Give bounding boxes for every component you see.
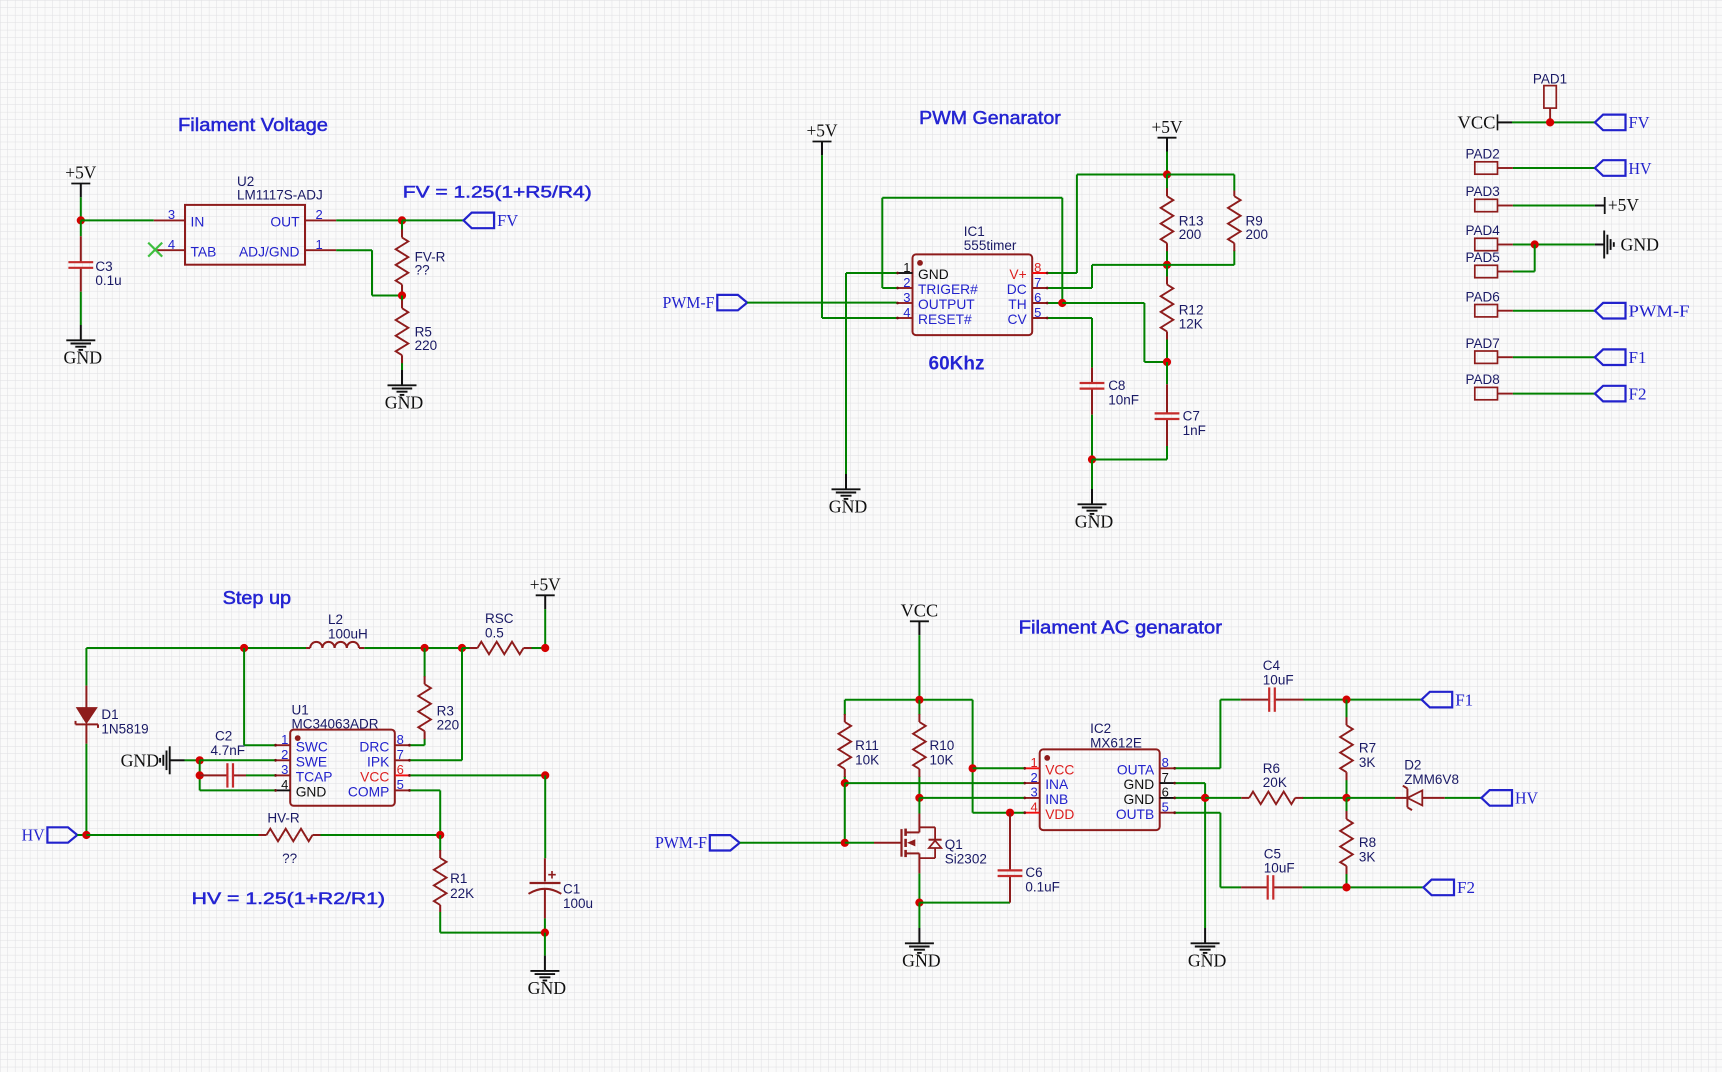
svg-text:INB: INB <box>1045 792 1068 807</box>
text title PWM Genarator <box>919 108 1061 128</box>
label IC2 <box>1090 721 1142 750</box>
label C6 value <box>1025 865 1060 894</box>
capacitor C7 <box>1155 384 1180 446</box>
svg-text:Filament AC genarator: Filament AC genarator <box>1019 618 1222 638</box>
label RSC value <box>485 611 514 640</box>
ground GND (Q1) <box>902 928 941 970</box>
wire <box>1048 175 1167 274</box>
wire <box>1513 244 1595 246</box>
svg-text:HV: HV <box>22 825 46 844</box>
wire <box>973 767 1024 769</box>
wire <box>1205 797 1241 799</box>
wire <box>1176 797 1205 799</box>
label D1 value <box>101 707 148 736</box>
label U1 <box>292 703 379 732</box>
wire <box>200 789 275 791</box>
pin 4 VDD <box>1023 800 1074 822</box>
svg-text:8: 8 <box>1034 260 1041 275</box>
junction GND/C2 <box>196 771 204 779</box>
wire <box>200 760 275 790</box>
label Q1 value <box>945 837 987 866</box>
svg-text:R8: R8 <box>1359 835 1376 850</box>
svg-text:6: 6 <box>1162 785 1169 800</box>
label R7 value <box>1359 741 1376 770</box>
svg-text:4.7nF: 4.7nF <box>211 743 246 758</box>
svg-text:10uF: 10uF <box>1264 861 1295 876</box>
svg-text:3K: 3K <box>1359 849 1376 864</box>
pin 2 OUT <box>270 207 336 229</box>
transistor Q1 Si2302 <box>874 814 942 874</box>
svg-text:PWM Genarator: PWM Genarator <box>919 108 1061 128</box>
svg-text:GND: GND <box>829 496 868 516</box>
svg-text:MX612E: MX612E <box>1090 735 1142 750</box>
svg-text:5: 5 <box>397 777 404 792</box>
capacitor C3 <box>68 236 93 292</box>
label C4 value <box>1263 658 1294 687</box>
wire <box>1176 813 1221 888</box>
wire <box>544 775 546 858</box>
svg-text:100uH: 100uH <box>328 626 368 641</box>
svg-text:??: ?? <box>282 851 297 866</box>
power flag VCC (ac gen) <box>901 601 939 636</box>
svg-text:Q1: Q1 <box>945 837 963 852</box>
wire <box>1048 318 1092 368</box>
svg-text:1: 1 <box>903 260 910 275</box>
label PAD5 <box>1466 250 1500 265</box>
label PAD3 <box>1466 184 1500 199</box>
label C2 value <box>211 728 246 757</box>
wire <box>1513 393 1595 395</box>
resistor R6 <box>1241 792 1314 805</box>
wire <box>80 292 82 325</box>
svg-text:GND: GND <box>918 267 949 282</box>
pin 8 V+ <box>1009 260 1048 282</box>
wire <box>1167 175 1234 191</box>
wire <box>1176 700 1221 769</box>
wire <box>1513 167 1595 169</box>
pin 7 GND <box>1124 770 1177 792</box>
svg-text:2: 2 <box>281 747 288 762</box>
no-connect flag pin 4 <box>148 243 162 257</box>
pin 5 COMP <box>348 777 411 799</box>
power flag +5V (filament input) <box>65 163 96 198</box>
wire <box>747 302 896 304</box>
svg-text:2: 2 <box>1030 770 1037 785</box>
svg-text:TRIGER#: TRIGER# <box>918 282 978 297</box>
svg-text:3K: 3K <box>1359 755 1376 770</box>
junction VCC/+5V rail <box>541 771 549 779</box>
svg-text:200: 200 <box>1246 227 1269 242</box>
diode D2 ZMM6V8 zener <box>1395 786 1445 810</box>
capacitor C1 polarized <box>529 858 562 918</box>
svg-text:D1: D1 <box>101 707 118 722</box>
svg-text:F1: F1 <box>1629 348 1647 367</box>
junction HV/D1 <box>82 831 90 839</box>
port FV (pad) <box>1595 113 1650 132</box>
svg-text:FV = 1.25(1+R5/R4): FV = 1.25(1+R5/R4) <box>403 183 592 202</box>
pin 1 GND <box>896 260 949 282</box>
svg-text:0.1u: 0.1u <box>95 273 121 288</box>
wire F1 line <box>1220 699 1240 701</box>
port HV (pad) <box>1595 159 1652 178</box>
svg-text:C3: C3 <box>95 259 112 274</box>
resistor R13 <box>1161 175 1174 265</box>
component U2 LM1117S-ADJ <box>185 205 305 265</box>
ground GND (step up) <box>528 956 567 998</box>
svg-text:MC34063ADR: MC34063ADR <box>292 717 379 732</box>
svg-text:R10: R10 <box>930 738 955 753</box>
svg-text:4: 4 <box>281 777 288 792</box>
wire <box>822 155 897 318</box>
svg-text:VCC: VCC <box>1045 762 1074 777</box>
wire <box>544 933 546 956</box>
label L2 value <box>328 612 368 641</box>
wire <box>1091 415 1093 460</box>
label PAD7 <box>1466 336 1500 351</box>
port F2 (ac gen) <box>1423 878 1475 897</box>
wire F2 line <box>1220 886 1241 888</box>
junction R6/R7/R8/D2 <box>1342 794 1350 802</box>
wire <box>1314 797 1347 799</box>
resistor R12 <box>1161 265 1174 362</box>
label R13 value <box>1179 213 1204 242</box>
svg-text:GND: GND <box>1124 792 1155 807</box>
wire <box>411 744 425 746</box>
label R9 value <box>1246 213 1269 242</box>
svg-text:C6: C6 <box>1025 865 1042 880</box>
junction FV-R/R5/ADJ <box>398 291 406 299</box>
svg-text:TAB: TAB <box>191 244 217 259</box>
svg-text:F2: F2 <box>1457 878 1475 897</box>
pin 8 OUTA <box>1117 755 1176 777</box>
svg-text:555timer: 555timer <box>964 238 1017 253</box>
port HV (step up) <box>22 825 78 844</box>
svg-text:HV: HV <box>1629 159 1653 178</box>
wire <box>846 273 897 474</box>
pad PAD2 <box>1475 162 1513 174</box>
wire <box>1166 362 1168 384</box>
resistor FV-R <box>396 220 409 295</box>
svg-text:IC1: IC1 <box>964 224 985 239</box>
svg-text:Si2302: Si2302 <box>945 851 987 866</box>
svg-text:R7: R7 <box>1359 741 1376 756</box>
wire <box>244 648 274 745</box>
wire <box>919 797 1023 799</box>
junction rail/SWC <box>240 644 248 652</box>
junction VDD/C6 <box>1006 809 1014 817</box>
svg-text:22K: 22K <box>450 886 474 901</box>
svg-text:CV: CV <box>1008 312 1028 327</box>
junction PWM-F/gate <box>841 839 849 847</box>
svg-text:+: + <box>548 867 557 884</box>
power flag +5V (pad3) <box>1595 195 1639 215</box>
pad PAD4 <box>1475 238 1513 250</box>
label C5 value <box>1264 846 1295 875</box>
svg-text:C8: C8 <box>1108 378 1125 393</box>
svg-text:0.1uF: 0.1uF <box>1025 879 1060 894</box>
wire <box>882 198 1062 303</box>
svg-text:VDD: VDD <box>1045 807 1074 822</box>
wire <box>973 812 1024 814</box>
pin 4 GND <box>274 777 326 799</box>
pin 8 DRC <box>359 732 411 754</box>
text 60Khz <box>929 354 985 375</box>
svg-text:0.5: 0.5 <box>485 625 504 640</box>
junction R12/C7 <box>1163 358 1171 366</box>
label R8 value <box>1359 835 1376 864</box>
svg-text:OUTPUT: OUTPUT <box>918 297 975 312</box>
svg-text:GND: GND <box>902 950 941 970</box>
ground GND (R5) <box>385 370 424 412</box>
diode D1 1N5819 <box>76 686 99 744</box>
wire <box>1166 446 1168 460</box>
svg-text:ZMM6V8: ZMM6V8 <box>1404 772 1459 787</box>
pin 1 ADJ/GND <box>239 237 336 259</box>
label IC1 <box>964 224 1017 253</box>
svg-text:PWM-F: PWM-F <box>655 833 707 852</box>
svg-text:GND: GND <box>385 392 424 412</box>
pad PAD8 <box>1475 387 1513 399</box>
junction HV-R/COMP/R1 <box>436 831 444 839</box>
capacitor C2 <box>200 763 275 787</box>
svg-text:3: 3 <box>168 207 175 222</box>
wire <box>440 912 545 933</box>
svg-text:C2: C2 <box>215 728 232 743</box>
svg-text:1: 1 <box>1030 755 1037 770</box>
wire <box>321 834 440 836</box>
wire <box>411 774 546 776</box>
label HV-R value <box>267 811 300 867</box>
wire <box>1304 699 1422 701</box>
wire <box>1092 460 1167 490</box>
svg-text:3: 3 <box>1030 785 1037 800</box>
svg-text:HV: HV <box>1515 789 1539 808</box>
resistor R5 <box>396 296 409 369</box>
svg-text:7: 7 <box>397 747 404 762</box>
wire <box>185 759 200 761</box>
wire <box>1445 797 1482 799</box>
svg-text:FV: FV <box>497 211 519 230</box>
junction PAD4/PAD5 <box>1531 240 1539 248</box>
junction INB/R10/Q1 drain <box>915 794 923 802</box>
resistor R7 <box>1340 700 1353 798</box>
svg-text:1: 1 <box>315 237 322 252</box>
wire <box>845 842 874 844</box>
wire <box>1048 302 1062 304</box>
svg-text:COMP: COMP <box>348 785 389 800</box>
svg-text:4: 4 <box>1030 800 1037 815</box>
pin 5 OUTB <box>1116 800 1176 822</box>
svg-text:R6: R6 <box>1263 761 1280 776</box>
svg-text:VCC: VCC <box>901 601 939 621</box>
resistor R9 <box>1228 191 1241 265</box>
svg-text:FV: FV <box>1629 113 1651 132</box>
text title Filament AC genarator <box>1019 618 1222 638</box>
label PAD4 <box>1466 223 1501 238</box>
junction C5/R8/F2 <box>1342 883 1350 891</box>
junction rail/R3 <box>421 644 429 652</box>
svg-text:TCAP: TCAP <box>296 770 333 785</box>
svg-text:7: 7 <box>1162 770 1169 785</box>
wire <box>411 648 463 760</box>
pin 3 TCAP <box>274 762 332 784</box>
svg-text:HV-R: HV-R <box>267 811 300 826</box>
port PWM-F (pad) <box>1595 302 1690 321</box>
pad PAD3 <box>1475 199 1513 211</box>
pin 6 VCC <box>360 762 411 784</box>
pin 4 RESET# <box>896 305 972 327</box>
pin 6 GND <box>1124 785 1177 807</box>
wire <box>1166 152 1168 175</box>
svg-text:DC: DC <box>1007 282 1027 297</box>
svg-text:D2: D2 <box>1404 758 1421 773</box>
label PAD6 <box>1466 289 1500 304</box>
pin 7 DC <box>1007 275 1049 297</box>
svg-text:R11: R11 <box>855 738 879 753</box>
pin 2 SWE <box>274 747 327 769</box>
svg-text:6: 6 <box>1034 290 1041 305</box>
label FV-R value <box>415 249 446 277</box>
junction +5V/C3/U2-IN <box>77 216 85 224</box>
IC1 body <box>913 254 1033 335</box>
svg-text:7: 7 <box>1034 275 1041 290</box>
label PAD1 <box>1533 71 1567 86</box>
svg-text:RSC: RSC <box>485 611 514 626</box>
svg-text:GND: GND <box>121 751 160 771</box>
svg-text:R1: R1 <box>450 871 467 886</box>
label U2 <box>237 174 323 203</box>
svg-text:VCC: VCC <box>1458 112 1496 132</box>
port F2 (pad) <box>1595 384 1647 403</box>
svg-text:GND: GND <box>1621 235 1660 255</box>
wire <box>336 219 402 221</box>
label C1 value <box>563 882 593 911</box>
svg-text:GND: GND <box>528 978 567 998</box>
svg-text:4: 4 <box>903 305 910 320</box>
ground GND (555) <box>829 474 868 516</box>
label R5 value <box>415 324 438 353</box>
svg-text:??: ?? <box>415 262 430 277</box>
wire <box>1062 303 1167 362</box>
svg-text:10uF: 10uF <box>1263 672 1294 687</box>
wire <box>918 635 920 700</box>
svg-text:6: 6 <box>397 762 404 777</box>
label C3 value <box>95 259 121 288</box>
junction C8/C7/GND <box>1088 455 1096 463</box>
capacitor C4 <box>1241 687 1304 711</box>
svg-text:2: 2 <box>315 207 322 222</box>
port F1 (ac gen) <box>1422 690 1474 709</box>
svg-text:220: 220 <box>437 718 460 733</box>
svg-text:SWE: SWE <box>296 754 327 769</box>
wire <box>1347 797 1396 799</box>
wire <box>740 842 845 844</box>
svg-text:10K: 10K <box>855 752 879 767</box>
wire <box>336 250 402 295</box>
svg-text:PAD7: PAD7 <box>1466 336 1500 351</box>
svg-text:OUTB: OUTB <box>1116 807 1154 822</box>
resistor RSC <box>462 642 545 655</box>
svg-text:2: 2 <box>903 275 910 290</box>
label R6 value <box>1263 761 1287 790</box>
svg-text:3: 3 <box>281 762 288 777</box>
svg-text:HV = 1.25(1+R2/R1): HV = 1.25(1+R2/R1) <box>192 889 385 908</box>
ground flag GND (step up) <box>121 746 185 774</box>
svg-text:3: 3 <box>903 290 910 305</box>
svg-text:LM1117S-ADJ: LM1117S-ADJ <box>237 188 323 203</box>
capacitor C8 <box>1080 368 1105 415</box>
port PWM-F (pwm out) <box>663 293 748 312</box>
wire <box>1302 886 1423 888</box>
wire <box>544 609 546 648</box>
svg-text:8: 8 <box>1162 755 1169 770</box>
junction R13/R12/DC <box>1163 261 1171 269</box>
wire <box>919 902 1010 904</box>
svg-text:TH: TH <box>1008 297 1026 312</box>
junction TH node <box>1058 299 1066 307</box>
pin 6 TH <box>1008 290 1048 312</box>
IC2 body <box>1040 749 1160 830</box>
svg-text:GND: GND <box>1075 511 1114 531</box>
wire <box>1176 783 1205 928</box>
svg-text:PAD1: PAD1 <box>1533 71 1567 86</box>
pad PAD5 <box>1475 265 1513 277</box>
resistor HV-R <box>258 829 321 842</box>
wire <box>1048 265 1234 288</box>
svg-text:R3: R3 <box>437 704 454 719</box>
wire <box>1513 310 1595 312</box>
wire <box>918 903 920 928</box>
resistor R1 <box>434 835 447 912</box>
pin 7 IPK <box>367 747 411 769</box>
svg-text:+5V: +5V <box>807 121 838 141</box>
svg-text:PAD6: PAD6 <box>1466 289 1500 304</box>
pad PAD1 <box>1544 86 1556 123</box>
svg-text:C5: C5 <box>1264 846 1281 861</box>
svg-text:+5V: +5V <box>1152 117 1183 137</box>
svg-text:IN: IN <box>191 215 205 230</box>
wire <box>77 834 86 836</box>
svg-text:4: 4 <box>168 237 175 252</box>
svg-text:10nF: 10nF <box>1108 392 1139 407</box>
svg-text:+5V: +5V <box>65 163 96 183</box>
resistor R10 <box>913 700 926 798</box>
ground GND (IC2) <box>1188 928 1227 970</box>
svg-text:VCC: VCC <box>360 770 389 785</box>
svg-text:L2: L2 <box>328 612 343 627</box>
svg-text:+5V: +5V <box>1608 195 1639 215</box>
svg-text:PAD3: PAD3 <box>1466 184 1500 199</box>
wire <box>918 873 920 902</box>
junction +5V rail <box>1163 170 1171 178</box>
svg-text:C1: C1 <box>563 882 580 897</box>
pin 2 INA <box>1023 770 1069 792</box>
wire <box>402 219 464 221</box>
svg-text:1: 1 <box>281 732 288 747</box>
svg-text:Step up: Step up <box>223 588 292 608</box>
ground GND (C8) <box>1075 489 1114 531</box>
text formula FV <box>403 183 592 202</box>
U1 body <box>290 730 395 806</box>
svg-text:60Khz: 60Khz <box>929 354 985 375</box>
junction OUT/FV-R/FV <box>398 216 406 224</box>
svg-text:5: 5 <box>1034 305 1041 320</box>
text title Step up <box>223 588 292 608</box>
svg-text:220: 220 <box>415 338 438 353</box>
net flag VCC <box>1458 112 1513 132</box>
junction GND/SWE <box>196 756 204 764</box>
junction rail/IPK <box>458 644 466 652</box>
